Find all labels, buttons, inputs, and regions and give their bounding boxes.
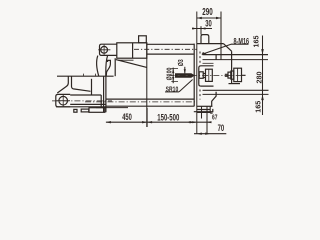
body divider — [132, 43, 134, 58]
dimension 30 line — [192, 28, 212, 30]
eye bracket — [56, 94, 70, 106]
platen right lower ledge — [229, 83, 241, 85]
eye crosshair — [98, 45, 110, 56]
left eye crosshair — [57, 95, 70, 107]
box right vertical — [100, 95, 102, 107]
box top edge — [70, 94, 101, 96]
bolt circle dashed line — [199, 52, 201, 100]
bolt head divider — [237, 68, 239, 81]
platen bottom edge — [197, 105, 213, 107]
platen bottom-right chamfer — [212, 92, 216, 107]
leader arrowhead — [202, 52, 207, 54]
dim right arrow at 194.6 — [190, 121, 195, 123]
ejector horizontals — [197, 110, 210, 113]
guard verticals — [68, 76, 71, 86]
ejector hook — [210, 112, 212, 114]
svg-text:290: 290 — [202, 7, 213, 18]
top tie bar line 2 — [203, 59, 269, 61]
ejector vertical a — [201, 106, 203, 118]
shelf ticks — [84, 74, 96, 77]
guard shallow diagonal — [72, 87, 91, 92]
svg-text:8-M16: 8-M16 — [233, 35, 249, 46]
foot pad 1 — [74, 109, 77, 112]
nozzle highlight — [177, 74, 189, 76]
locating ring connectors — [203, 74, 205, 78]
locating ring big rect — [206, 69, 213, 81]
carriage left edge — [114, 58, 116, 76]
barrel centerline dash-dot — [134, 48, 197, 50]
svg-text:165: 165 — [253, 101, 262, 113]
dim 290 arrows — [197, 17, 221, 19]
guard riser — [91, 79, 93, 95]
dim 67 arrows — [192, 121, 211, 123]
injection unit eye circle — [101, 46, 108, 53]
svg-text:67: 67 — [212, 114, 218, 122]
pedestal column — [104, 76, 106, 112]
platen top notch — [201, 35, 209, 44]
svg-text:450: 450 — [122, 112, 132, 123]
ejector vertical b — [206, 106, 208, 133]
nozzle body solid — [175, 73, 195, 78]
dia3 arrow — [184, 69, 186, 73]
svg-text:Ø100: Ø100 — [166, 67, 174, 80]
base centerline dash-dot — [85, 101, 196, 103]
left eye circle — [59, 96, 68, 105]
platen right edge — [231, 51, 233, 83]
dia100 extension ticks — [171, 69, 178, 82]
body right edge extension down — [146, 43, 148, 127]
barrel joint lines — [112, 44, 117, 55]
svg-text:70: 70 — [218, 122, 225, 133]
injection unit body — [117, 43, 147, 58]
right extension line — [220, 12, 222, 61]
svg-text:30: 30 — [205, 18, 212, 29]
nozzle puller bolt head — [234, 68, 242, 81]
platen pocket top — [199, 66, 214, 86]
tie bar end cap — [215, 55, 217, 60]
locating ring small rect — [199, 72, 203, 79]
SR10 underline — [165, 91, 179, 93]
dia3 dim line — [184, 67, 186, 74]
dim mid arrows at 147 — [142, 121, 152, 123]
foot pad 3 — [89, 108, 105, 113]
platen top-right chamfer — [223, 44, 231, 52]
dia100 arrows — [172, 69, 174, 82]
svg-text:150-500: 150-500 — [157, 112, 180, 123]
svg-text:SR10: SR10 — [166, 86, 179, 94]
carriage diagonal brace — [116, 60, 147, 68]
platen face line 2 + extensions — [196, 12, 198, 135]
body second bottom line — [118, 59, 134, 61]
8-M16 leader — [202, 44, 231, 54]
base rail top — [106, 98, 194, 100]
foot pad 2 — [81, 109, 89, 112]
top tie bar line 1 — [203, 54, 269, 56]
neck curve left — [97, 56, 99, 77]
platen top edge — [197, 43, 224, 45]
dimension 450 / 150-500 line — [106, 121, 195, 123]
right dim stack line — [262, 36, 264, 116]
box mid line — [70, 103, 106, 105]
platen face line 1 — [193, 44, 195, 107]
box bottom line — [56, 106, 106, 108]
ejector vertical c — [209, 106, 211, 113]
dim 450 divider extension — [146, 108, 148, 127]
base short line — [96, 107, 128, 109]
dimension 290 line — [197, 17, 221, 19]
bottom tie bar line 1 — [203, 89, 269, 91]
nozzle puller bolt mid — [231, 71, 234, 79]
platen under plate with hook — [194, 109, 213, 112]
SR10 leader — [179, 80, 193, 92]
nozzle puller bolt tip — [228, 72, 231, 78]
svg-text:Ø3: Ø3 — [177, 59, 185, 66]
barrel top line — [147, 43, 194, 45]
8-M16 underline — [231, 43, 249, 45]
ring divider — [208, 69, 210, 81]
svg-text:280: 280 — [254, 71, 263, 83]
left centerline dash-dot — [52, 100, 112, 102]
right dim arrows — [261, 49, 264, 100]
neck curve right — [106, 56, 108, 77]
dim 450 left arrow — [106, 121, 111, 123]
bottom tie bar line 2 — [203, 93, 269, 95]
base rail bottom — [106, 105, 194, 107]
injection unit eye mount plate — [100, 44, 113, 55]
shelf line — [57, 75, 114, 77]
dim 30 arrows — [192, 27, 205, 29]
dim 70 arrows — [197, 133, 210, 135]
guard corner curve to bracket — [57, 83, 68, 93]
bolt stem — [225, 74, 246, 76]
main axis dash-dot — [169, 74, 247, 76]
platen counterbore step line — [203, 62, 214, 64]
hopper tower — [139, 36, 147, 43]
barrel bottom line — [147, 53, 194, 55]
handle hook — [106, 60, 110, 76]
notch left extension up — [200, 26, 202, 34]
svg-text:165: 165 — [251, 35, 260, 47]
dimension 67 line — [189, 121, 212, 123]
dimension 70 line — [194, 133, 226, 135]
dia100 dim line — [172, 68, 174, 84]
